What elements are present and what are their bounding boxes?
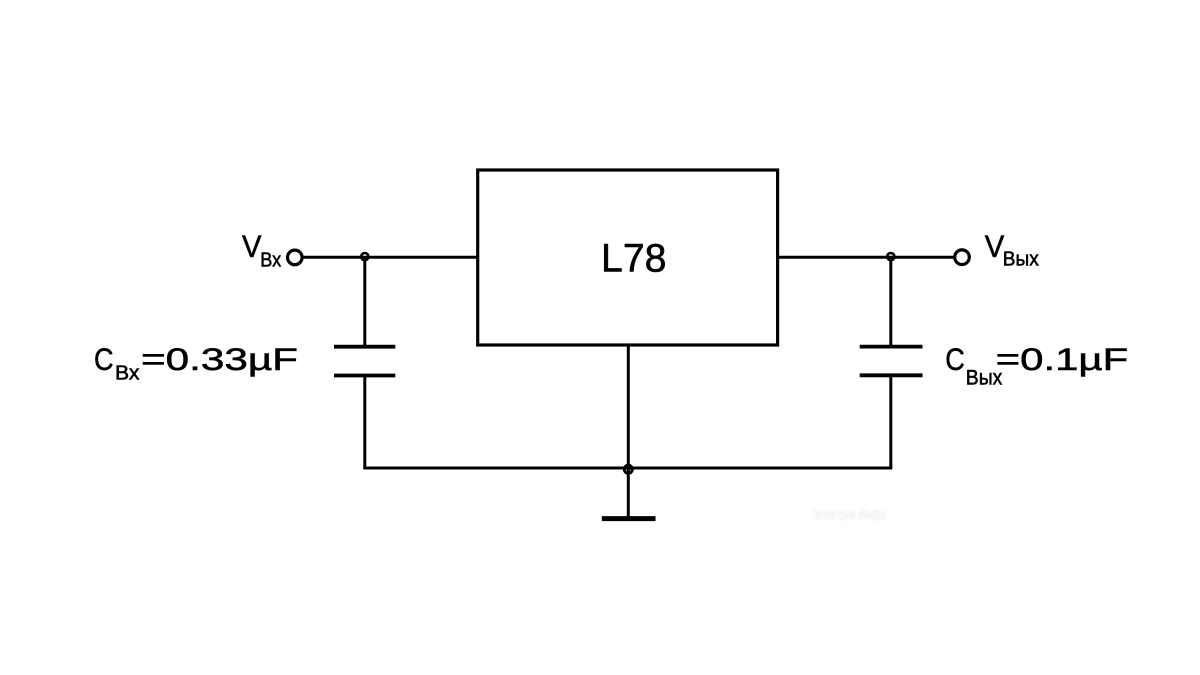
wire bottom rail bbox=[363, 467, 892, 470]
svg-text:=0.1µF: =0.1µF bbox=[996, 341, 1128, 377]
wire C1 top lead bbox=[363, 257, 366, 345]
output terminal bbox=[955, 250, 970, 265]
svg-text:Вых: Вых bbox=[1003, 249, 1039, 271]
svg-text:Электрик Инфо: Электрик Инфо bbox=[812, 506, 886, 523]
svg-text:L78: L78 bbox=[601, 237, 667, 281]
svg-text:Вх: Вх bbox=[115, 362, 140, 384]
wire C2 bottom lead bbox=[889, 377, 892, 468]
svg-text:Вх: Вх bbox=[260, 249, 281, 271]
node input junction bbox=[361, 253, 368, 260]
ground bbox=[602, 516, 656, 521]
svg-text:C: C bbox=[945, 341, 965, 377]
wire regulator ground lead bbox=[627, 345, 630, 517]
node ground junction bbox=[624, 465, 632, 473]
svg-text:V: V bbox=[242, 228, 262, 264]
capacitor C1 plates bbox=[334, 347, 395, 376]
wire output horizontal bbox=[778, 256, 954, 259]
wire input horizontal bbox=[301, 256, 477, 259]
svg-text:V: V bbox=[985, 228, 1005, 264]
node output junction bbox=[887, 253, 894, 260]
capacitor C2 plates bbox=[860, 347, 923, 376]
svg-text:=0.33µF: =0.33µF bbox=[141, 341, 298, 377]
input terminal bbox=[288, 250, 303, 265]
regulator box U1 bbox=[478, 170, 778, 345]
wire C2 top lead bbox=[889, 257, 892, 345]
svg-text:C: C bbox=[94, 341, 114, 377]
wire C1 bottom lead bbox=[363, 377, 366, 468]
